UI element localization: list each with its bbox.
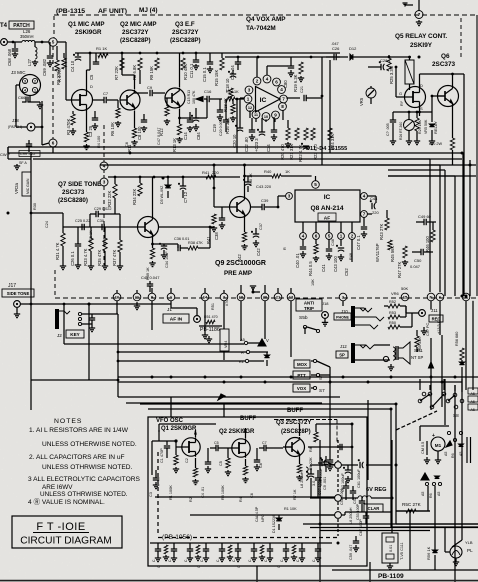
svg-text:.047: .047 — [331, 41, 340, 46]
svg-text:A5: A5 — [437, 492, 441, 496]
svg-text:C20 10: C20 10 — [232, 134, 237, 148]
transistor Q5 2SK19Y fet — [405, 87, 426, 108]
capacitor C24 below vox — [271, 129, 277, 131]
svg-text:C26 0.1: C26 0.1 — [70, 251, 75, 266]
svg-text:R20 470: R20 470 — [280, 143, 285, 160]
svg-text:WV1176P: WV1176P — [375, 243, 380, 262]
svg-text:C39: C39 — [261, 198, 269, 203]
svg-text:R34 22K: R34 22K — [132, 188, 137, 205]
svg-text:4: 4 — [103, 164, 106, 169]
wire long h382 — [118, 381, 462, 383]
svg-text:C52: C52 — [353, 497, 357, 504]
wire J17 to right — [20, 303, 171, 305]
svg-text:SIDE TONE: SIDE TONE — [7, 291, 30, 296]
resistor R29 10K — [415, 118, 419, 131]
ground M1 b — [437, 451, 439, 457]
svg-text:C30: C30 — [97, 219, 104, 223]
wire long h403 — [126, 402, 322, 404]
wire long h397 — [118, 396, 340, 398]
svg-text:R32 22K: R32 22K — [107, 190, 112, 207]
resistor R6 base bias — [116, 108, 120, 118]
svg-text:3: 3 — [24, 80, 26, 84]
svg-text:A5: A5 — [421, 492, 425, 496]
svg-text:L6 250uH: L6 250uH — [349, 507, 353, 524]
svg-text:MJ (4): MJ (4) — [139, 7, 157, 14]
svg-text:C26: C26 — [332, 46, 340, 51]
svg-text:7: 7 — [363, 212, 366, 217]
node pin 11 on bottom boundary — [133, 293, 141, 301]
resistor vfo bottom 3 — [260, 545, 264, 554]
svg-text:TA-7042M: TA-7042M — [246, 25, 276, 32]
svg-text:R2 220K: R2 220K — [56, 68, 61, 85]
capacitor C39 coupling — [251, 206, 262, 208]
svg-text:SF A: SF A — [19, 161, 27, 165]
svg-text:R43 27K: R43 27K — [379, 223, 384, 240]
capacitor C52 right — [350, 490, 356, 492]
svg-text:R3 470K: R3 470K — [66, 118, 71, 135]
wire q7 out right — [159, 226, 211, 228]
terminal sp — [383, 356, 388, 361]
ground J1 area — [208, 336, 210, 339]
resistor R44 under Q8 — [315, 239, 317, 244]
svg-text:Q9 2SC1000GR: Q9 2SC1000GR — [215, 260, 266, 267]
svg-text:1: 1 — [34, 89, 36, 93]
resistor R input — [56, 46, 58, 60]
svg-text:13: 13 — [289, 295, 294, 300]
wire Q9 collector — [244, 165, 246, 196]
svg-text:C41: C41 — [321, 264, 326, 272]
wire q2 source — [245, 459, 247, 466]
svg-text:R29 10K: R29 10K — [418, 119, 422, 134]
svg-text:7: 7 — [282, 97, 285, 102]
resistor R22 below vox — [304, 128, 308, 140]
svg-text:C66: C66 — [18, 95, 26, 100]
ecap C43 220 — [245, 181, 251, 183]
node q1 gate pin — [174, 439, 177, 442]
svg-text:C9: C9 — [147, 85, 153, 90]
svg-text:1: 1 — [340, 234, 343, 239]
svg-text:C51 0.001: C51 0.001 — [340, 488, 344, 505]
transistor Q3 vfo npn — [286, 438, 305, 457]
wire bottom bus c — [320, 530, 430, 532]
transistor Q9 2SC1000GR — [230, 197, 251, 218]
ground under pin11 — [136, 302, 138, 306]
capacitor C26b q7 — [75, 243, 81, 245]
svg-text:Q5 RELAY CONT.: Q5 RELAY CONT. — [395, 33, 447, 40]
resistor R53 — [388, 315, 400, 319]
svg-text:C25 0.22: C25 0.22 — [75, 219, 90, 223]
node pin 9 on bottom boundary — [148, 293, 156, 301]
svg-text:Q4 VOX AMP: Q4 VOX AMP — [246, 16, 286, 23]
wire vert into bottom b — [223, 403, 225, 417]
wire supply rail — [75, 52, 340, 54]
capacitor vfo bottom 7 — [267, 548, 273, 550]
svg-text:R37 47K: R37 47K — [112, 249, 117, 266]
node vox pin3 — [245, 86, 253, 94]
capacitor C81 right — [286, 97, 300, 99]
svg-text:9: 9 — [274, 113, 277, 118]
wire vert x33 — [31, 212, 63, 214]
svg-text:C24: C24 — [45, 221, 49, 228]
wire vfo rail top — [158, 430, 160, 441]
capacitor C51 right — [343, 485, 349, 487]
svg-text:C29 0.022: C29 0.022 — [94, 207, 112, 211]
capacitor C17 — [235, 61, 241, 63]
wire: AF unit dashed boundary bottom edge — [55, 297, 476, 299]
svg-text:R44 0.5: R44 0.5 — [308, 261, 313, 276]
svg-text:2. ALL CAPACITORS ARE IN u: 2. ALL CAPACITORS ARE IN uF — [29, 454, 125, 461]
svg-text:D12: D12 — [349, 46, 357, 51]
svg-text:VR6: VR6 — [391, 291, 400, 296]
meter M1 — [420, 425, 449, 427]
svg-text:R25 3.3M: R25 3.3M — [389, 65, 394, 84]
terminal t3 — [335, 512, 342, 519]
node pin 16 on bottom boundary — [113, 293, 121, 301]
resistor R42 emitter — [242, 232, 246, 242]
svg-text:C7: C7 — [262, 441, 267, 445]
svg-text:C40 .01: C40 .01 — [295, 253, 300, 268]
capacitor vfo bottom 10 — [315, 548, 321, 550]
svg-text:1: 1 — [247, 97, 250, 102]
node pin 1 on bottom boundary — [167, 293, 175, 301]
wire: dashed left edge between pins — [103, 170, 105, 178]
svg-text:10: 10 — [239, 295, 244, 300]
terminal t1 — [335, 462, 342, 469]
svg-text:UNLESS OTHERWISE NOTED.: UNLESS OTHERWISE NOTED. — [42, 441, 137, 448]
wire Q7 base line — [63, 226, 138, 228]
svg-text:R26 RT-360: R26 RT-360 — [399, 122, 403, 140]
switch contact K1 — [245, 359, 248, 362]
svg-text:RY: RY — [400, 100, 404, 106]
resistor vfo bottom 4 — [292, 545, 296, 554]
svg-text:KEY: KEY — [70, 332, 79, 337]
wire nest v5 — [462, 153, 464, 296]
label FT-101E title box — [12, 516, 122, 548]
connector J17 — [14, 301, 21, 308]
resistor R25 3.3M — [387, 58, 391, 71]
svg-text:C84: C84 — [196, 132, 201, 140]
wire 6v line — [310, 497, 335, 499]
wire bus C — [33, 158, 462, 160]
wire: AF unit dashed left edge lower — [103, 186, 105, 265]
svg-text:100 47K: 100 47K — [192, 90, 196, 104]
ground above pin20 — [252, 288, 254, 292]
svg-text:G: G — [399, 91, 402, 96]
svg-text:TRIP: TRIP — [304, 306, 314, 311]
capacitor C4 electrolytic — [77, 53, 79, 56]
svg-text:ARE I6WV: ARE I6WV — [42, 484, 73, 491]
wire Q2 emitter — [134, 111, 136, 128]
switch S7 contacts — [313, 359, 316, 362]
svg-text:C15 R13: C15 R13 — [187, 90, 191, 104]
svg-text:R3 100K: R3 100K — [221, 485, 225, 500]
wire q3 collector — [299, 428, 301, 436]
wire down right a — [454, 385, 456, 582]
svg-text:R8 6.8K: R8 6.8K — [132, 65, 137, 80]
diode D5 — [165, 185, 171, 188]
scan artifact bottom edge — [0, 580, 478, 582]
svg-text:J17: J17 — [8, 283, 16, 289]
svg-text:2: 2 — [351, 234, 354, 239]
resistor vfo bottom 0 — [164, 545, 168, 554]
svg-text:R45 56K: R45 56K — [390, 245, 395, 262]
resistor R33 4.7K — [89, 238, 93, 251]
node pin5 below Q8 — [326, 233, 333, 240]
svg-text:350mH: 350mH — [20, 34, 34, 39]
svg-text:A5: A5 — [471, 392, 475, 396]
transistor Q2 2SC372Y — [120, 90, 140, 110]
svg-text:S7: S7 — [319, 388, 325, 393]
wire q5 row — [393, 111, 432, 113]
svg-text:A5: A5 — [471, 400, 475, 404]
svg-text:D5 WL-09Z: D5 WL-09Z — [160, 185, 164, 204]
svg-text:10K: 10K — [311, 279, 315, 286]
svg-text:C15 0.1: C15 0.1 — [202, 67, 207, 82]
wire vox pin stubs — [249, 110, 251, 118]
svg-text:5: 5 — [314, 182, 317, 187]
switch arrow V — [258, 339, 266, 346]
resistor R8 — [138, 58, 142, 70]
svg-text:L27: L27 — [27, 58, 32, 66]
wire key mid vert — [88, 304, 90, 380]
svg-text:C11 0.1: C11 0.1 — [189, 63, 194, 78]
svg-text:1. AI L RESISTORS ARE IN 1: 1. AI L RESISTORS ARE IN 1/4W — [29, 427, 129, 434]
wire nest h3 — [388, 169, 445, 171]
svg-text:J2: J2 — [57, 333, 62, 338]
wire sw vert a — [427, 486, 429, 511]
capacitor C49 — [423, 219, 425, 225]
svg-text:4: 4 — [266, 77, 269, 82]
svg-text:C47 0.1: C47 0.1 — [356, 235, 361, 250]
wire to J11 — [406, 312, 419, 314]
relay RY coil — [405, 60, 414, 84]
svg-text:R21 31K: R21 31K — [289, 143, 294, 160]
capacitor C19 — [217, 109, 223, 111]
resistor R50 — [388, 325, 400, 329]
resistor R45 — [388, 240, 392, 250]
svg-text:4: 4 — [24, 89, 26, 93]
capacitor C16 coupling — [206, 96, 208, 102]
resistor R7 22K — [120, 58, 124, 70]
wire nest v6 — [469, 160, 471, 296]
capacitor vfo bottom 3 — [203, 548, 209, 550]
svg-text:C14: C14 — [183, 132, 188, 140]
wire left edge bus — [7, 147, 9, 153]
wire right cluster v — [367, 400, 369, 470]
capacitor C67 — [363, 515, 369, 517]
resistor R23 below vox — [311, 128, 315, 140]
svg-text:(2SC828P): (2SC828P) — [281, 429, 311, 435]
node pin 10 on bottom boundary — [237, 293, 245, 301]
svg-text:0.01: 0.01 — [389, 545, 393, 552]
wire bottomright verts — [319, 440, 321, 582]
resistor R15 — [220, 58, 224, 70]
svg-text:R1 1K: R1 1K — [96, 46, 107, 51]
ground J11 — [423, 327, 425, 331]
resistor R56b — [406, 509, 416, 513]
panel double line — [466, 437, 468, 463]
capacitor C15 — [207, 61, 213, 63]
svg-text:C4 .01: C4 .01 — [201, 487, 205, 498]
svg-text:R46 100: R46 100 — [425, 235, 430, 252]
transistor Q3 2SC372Y E.F — [165, 88, 185, 108]
resistor R11 emitter — [132, 128, 136, 138]
capacitor C8 bypass — [141, 119, 147, 121]
node vox pin5 — [263, 75, 271, 83]
inductor L6 — [341, 497, 358, 499]
resistor R3 470K — [71, 114, 75, 125]
wire down right b — [461, 379, 463, 540]
svg-text:R48: R48 — [349, 253, 353, 260]
svg-text:R13 1K: R13 1K — [172, 138, 177, 152]
ground at C66 — [39, 102, 41, 105]
wire Q6 collector — [452, 74, 454, 85]
resistor small r51 — [206, 320, 215, 324]
svg-text:C2: C2 — [185, 458, 189, 463]
wire q1 drain — [195, 430, 197, 437]
ground M1 a — [426, 457, 428, 460]
svg-text:C42: C42 — [256, 248, 261, 256]
resistor R9 15K — [155, 58, 159, 70]
ground under 14 — [204, 301, 206, 333]
svg-text:J3 MIC: J3 MIC — [11, 70, 26, 75]
svg-text:D: D — [420, 83, 423, 88]
wire s8 feeds — [419, 379, 421, 390]
svg-text:C? .005: C? .005 — [386, 123, 390, 136]
capacitor vfo bottom 9 — [299, 548, 305, 550]
capacitor C59 — [353, 540, 359, 542]
capacitor vfo bottom 8 — [283, 548, 289, 550]
svg-text:R35 1K: R35 1K — [89, 230, 93, 243]
wire vox top — [225, 56, 340, 58]
svg-text:C21: C21 — [300, 86, 304, 93]
wire key horiz — [31, 379, 118, 381]
wire AF boundary right edge — [476, 15, 478, 296]
svg-text:BUFF: BUFF — [240, 416, 256, 422]
trimmer VR5 — [366, 88, 376, 98]
ecap C60 — [323, 461, 329, 463]
svg-text:R7 1K: R7 1K — [293, 489, 297, 500]
switch contacts M1 right — [447, 431, 450, 434]
svg-text:3.0: 3.0 — [312, 481, 316, 486]
svg-text:Q2 MIC AMP: Q2 MIC AMP — [120, 21, 157, 28]
node vox pin1 — [244, 95, 252, 103]
node vox pin7 — [280, 95, 288, 103]
svg-text:UNLESS OTHRWISE NOTED.: UNLESS OTHRWISE NOTED. — [42, 464, 133, 471]
capacitor vfo bottom 6 — [251, 548, 257, 550]
node pin1 below Q8 — [338, 233, 345, 240]
arrow on mic line — [196, 97, 203, 102]
wire mic to gate — [65, 97, 67, 100]
capacitor C29q5 — [390, 119, 396, 121]
svg-text:R10 45K: R10 45K — [183, 63, 188, 80]
svg-text:Q3 E.F: Q3 E.F — [175, 21, 195, 28]
capacitor C3 — [92, 117, 98, 119]
capacitor C80 — [288, 65, 294, 67]
capacitor out c9 — [327, 459, 333, 461]
svg-text:C99 .022: C99 .022 — [20, 152, 35, 156]
wire vox gain pot — [223, 301, 225, 329]
wire to R contact — [118, 351, 246, 353]
inductor L8 choke — [306, 467, 308, 480]
svg-text:2SKI9GR: 2SKI9GR — [75, 29, 102, 36]
svg-text:R1 10K: R1 10K — [284, 507, 297, 511]
svg-text:Q2 2SKI9GR: Q2 2SKI9GR — [219, 429, 255, 435]
wire vfo supply rail — [316, 423, 352, 425]
svg-text:S7: S7 — [319, 375, 323, 380]
svg-text:2SC373: 2SC373 — [62, 189, 85, 196]
resistor R32 22K — [113, 184, 117, 198]
svg-text:R: R — [241, 350, 244, 355]
wire q1 source — [195, 458, 197, 468]
wire vfo bottom drop — [256, 566, 258, 582]
ecap C34 el — [161, 245, 167, 247]
svg-text:PTT: PTT — [297, 373, 306, 378]
switch S8 contacts — [418, 399, 422, 403]
wire vfo bottom rail — [150, 542, 332, 544]
svg-text:D1 1S2236: D1 1S2236 — [272, 515, 276, 533]
svg-text:L8 250uH: L8 250uH — [300, 471, 304, 488]
wire vox vert1 — [321, 57, 323, 165]
svg-text:6: 6 — [275, 80, 278, 85]
svg-text:R16 39K: R16 39K — [225, 117, 230, 134]
label VOX — [293, 384, 310, 392]
node pin4 of Q8 — [361, 193, 368, 200]
wire vfo left — [152, 440, 176, 442]
node pin N on bottom boundary — [427, 293, 435, 301]
svg-text:C50: C50 — [414, 258, 422, 263]
svg-text:4 Ⓡ VALUE IS NOMINAL.: 4 Ⓡ VALUE IS NOMINAL. — [28, 498, 105, 506]
svg-text:MOX: MOX — [297, 362, 307, 367]
wire pin stubs up — [240, 285, 242, 293]
node pin 2 on bottom boundary — [220, 293, 228, 301]
svg-text:14: 14 — [203, 295, 208, 300]
wire vfo interior rail — [155, 496, 335, 498]
node pin 5 on boundary — [49, 38, 57, 46]
wire Q9 base — [214, 206, 230, 208]
wire vfo right rail — [351, 424, 353, 480]
svg-text:#70: #70 — [225, 300, 229, 306]
capacitor vfo bottom 2 — [187, 548, 193, 550]
ecap C98 vfo — [321, 460, 323, 466]
resistor R10 — [181, 58, 185, 70]
terminal t2 — [335, 495, 342, 502]
wire Q1 drain — [86, 70, 88, 89]
wire left feed — [7, 147, 9, 159]
switch contact R — [246, 350, 249, 353]
svg-text:2: 2 — [34, 80, 36, 84]
svg-text:R33 4.7K: R33 4.7K — [83, 248, 88, 266]
svg-text:Q3 2SC372Y: Q3 2SC372Y — [276, 420, 311, 426]
svg-text:C28 1: C28 1 — [380, 58, 391, 63]
wire Q7 emitter — [152, 238, 154, 248]
capacitor C69 — [49, 42, 51, 55]
resistor vfo bottom 1 — [196, 545, 200, 554]
svg-text:PL: PL — [467, 548, 473, 553]
node pin 21 on bottom boundary — [274, 293, 282, 301]
svg-text:PATCH: PATCH — [13, 23, 30, 29]
resistor R40 1K — [245, 175, 273, 177]
svg-text:C47 0.047: C47 0.047 — [157, 127, 161, 145]
svg-text:6: 6 — [52, 141, 55, 146]
resistor R38 47K — [188, 246, 198, 250]
capacitor C53 right — [359, 500, 365, 502]
capacitor vfo c4 — [205, 461, 211, 463]
wire bus B — [8, 152, 462, 154]
svg-text:C44: C44 — [370, 196, 378, 201]
svg-text:R31 4.7K: R31 4.7K — [55, 242, 60, 260]
lamp PL — [450, 546, 462, 558]
